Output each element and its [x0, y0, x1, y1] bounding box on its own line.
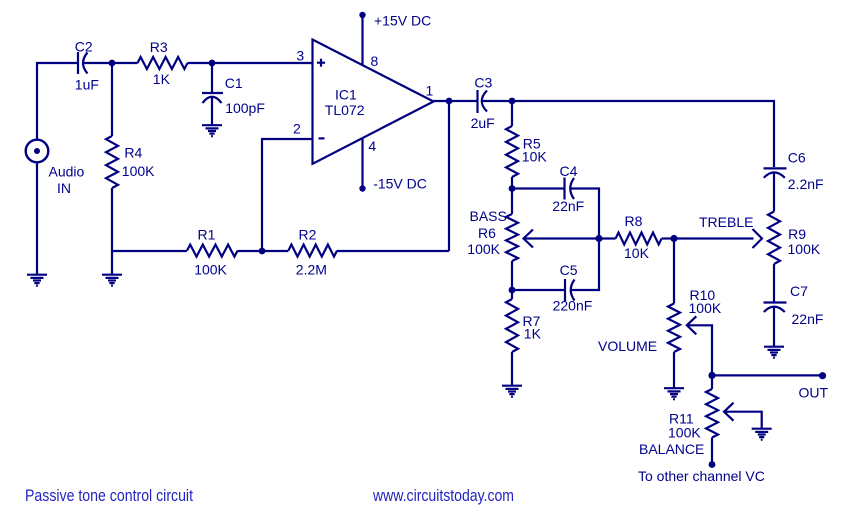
svg-text:1K: 1K: [153, 71, 171, 87]
label Audio IN: [49, 164, 85, 196]
svg-text:-15V DC: -15V DC: [373, 175, 427, 191]
pin 8 wire: [361, 15, 363, 65]
node junction R6/R7/C5: [509, 287, 516, 294]
ground C1: [202, 125, 222, 136]
wire input top: [37, 63, 78, 140]
op-amp IC1 TL072: [313, 40, 434, 164]
wire input to ground: [36, 162, 38, 275]
label R11 100K: [668, 410, 701, 440]
label C3 2uF: [471, 75, 495, 131]
label C6 2.2nF: [788, 149, 824, 192]
resistor R7: [506, 290, 518, 386]
svg-text:TREBLE: TREBLE: [699, 214, 753, 230]
pin 2 label: [293, 120, 301, 136]
svg-text:IN: IN: [57, 180, 71, 196]
label R1 100K: [194, 226, 227, 277]
svg-text:8: 8: [371, 53, 379, 69]
label C1 100pF: [225, 75, 265, 116]
label R2 2.2M: [296, 226, 327, 277]
svg-text:4: 4: [368, 138, 376, 154]
wire R1 to R2: [238, 250, 289, 252]
wiper R10 arrow: [687, 316, 712, 375]
svg-text:10K: 10K: [624, 245, 650, 261]
plus sign pin3: [317, 59, 325, 67]
label R8 10K: [624, 213, 650, 261]
node output junction: [446, 98, 453, 105]
wire to OUT: [712, 374, 823, 376]
resistor R1: [187, 245, 238, 257]
potentiometer R9 TREBLE: [768, 212, 780, 303]
svg-text:100K: 100K: [689, 300, 722, 316]
svg-text:OUT: OUT: [799, 385, 829, 401]
svg-text:TL072: TL072: [325, 102, 365, 118]
wire R6 node to C5: [512, 289, 565, 291]
wire C4 to bus: [570, 189, 599, 239]
svg-text:100K: 100K: [788, 241, 821, 257]
label C7 22nF: [790, 283, 823, 327]
label IC1 TL072: [325, 86, 365, 118]
capacitor C5: [565, 279, 575, 301]
node junction C3/R5: [509, 98, 516, 105]
wiper R11 arrow: [724, 403, 762, 429]
svg-text:R9: R9: [788, 226, 806, 242]
-15V supply dot: [359, 185, 365, 191]
wire ground to R1: [112, 250, 187, 252]
resistor R3: [138, 57, 188, 69]
svg-text:www.circuitstoday.com: www.circuitstoday.com: [372, 486, 514, 505]
svg-text:IC1: IC1: [335, 86, 357, 102]
resistor R8: [599, 233, 674, 245]
label To other channel VC: [638, 468, 765, 484]
pin 4 wire: [361, 138, 363, 189]
svg-text:C2: C2: [75, 38, 93, 54]
ground R10: [664, 388, 684, 399]
label R4 100K: [122, 145, 155, 179]
node junction wiper/R8/C4/C5: [595, 235, 602, 242]
node junction C2/R3/R4: [109, 60, 116, 67]
node junction R3/C1: [209, 60, 216, 67]
wire R5 node to C4: [512, 187, 565, 189]
resistor R2: [288, 245, 337, 257]
svg-text:C4: C4: [560, 163, 578, 179]
node junction R1/R2/pin2: [259, 248, 266, 255]
ground input: [27, 275, 47, 286]
+15V supply dot: [359, 12, 365, 18]
label C2 1uF: [75, 38, 99, 92]
label BALANCE: [639, 441, 704, 457]
node junction R5/R6/C4: [509, 185, 516, 192]
svg-text:1: 1: [426, 82, 434, 98]
svg-text:C3: C3: [474, 75, 492, 91]
wire R2 to output: [337, 250, 449, 252]
label R5 10K: [522, 136, 548, 165]
capacitor C2: [78, 52, 88, 74]
potentiometer R6 BASS: [506, 189, 518, 291]
svg-text:Audio: Audio: [49, 164, 85, 180]
wire C2 to R3: [84, 62, 138, 64]
pin 8 label: [371, 53, 379, 69]
wire R3 to pin3: [188, 62, 313, 64]
svg-text:100K: 100K: [194, 261, 227, 277]
svg-text:2.2M: 2.2M: [296, 261, 327, 277]
svg-text:100pF: 100pF: [225, 100, 265, 116]
label VOLUME: [598, 338, 657, 354]
caption www.circuitstoday.com: [372, 486, 514, 505]
svg-text:100K: 100K: [122, 163, 155, 179]
svg-text:BASS: BASS: [470, 208, 507, 224]
label C4 22nF: [552, 163, 584, 214]
svg-text:100K: 100K: [668, 424, 701, 440]
svg-text:1K: 1K: [524, 325, 542, 341]
svg-text:R4: R4: [124, 145, 142, 161]
svg-text:2: 2: [293, 120, 301, 136]
svg-text:C5: C5: [560, 262, 578, 278]
node junction R8/R10/treble wiper: [670, 235, 677, 242]
capacitor C4: [565, 178, 575, 200]
svg-text:R2: R2: [299, 226, 317, 242]
svg-text:+15V DC: +15V DC: [374, 13, 431, 29]
wire pin2 feedback: [262, 139, 313, 251]
potentiometer R11 BALANCE: [706, 375, 718, 464]
pin 3 label: [296, 47, 304, 63]
audio input connector J1: [26, 140, 49, 163]
capacitor C3: [478, 90, 488, 113]
resistor R5: [506, 101, 518, 189]
label BASS R6 100K: [467, 208, 507, 257]
svg-text:220nF: 220nF: [553, 297, 593, 313]
wire C3 to treble corner: [483, 101, 774, 167]
svg-text:100K: 100K: [467, 241, 500, 257]
svg-text:22nF: 22nF: [552, 198, 584, 214]
label +15V DC: [374, 13, 431, 29]
label C5 220nF: [553, 262, 593, 313]
pin 1 label: [426, 82, 434, 98]
wire R8 node down to R10: [673, 239, 675, 304]
label -15V DC: [373, 175, 427, 191]
svg-text:2uF: 2uF: [471, 115, 495, 131]
ground R7: [502, 386, 522, 397]
svg-text:C6: C6: [788, 149, 806, 165]
caption Passive tone control circuit: [25, 486, 193, 505]
wire output pin1: [434, 100, 478, 102]
ground R11 wiper: [752, 429, 772, 440]
wire output down to R2: [448, 101, 450, 251]
svg-text:2.2nF: 2.2nF: [788, 176, 824, 192]
ground C7: [764, 347, 784, 358]
OUT terminal dot: [819, 372, 826, 379]
svg-text:3: 3: [296, 47, 304, 63]
capacitor C6: [764, 168, 787, 211]
label R10 100K: [689, 287, 722, 316]
capacitor C1: [202, 63, 223, 125]
label R7 1K: [523, 313, 542, 342]
wiper R9 arrow TREBLE: [674, 229, 762, 248]
svg-text:BALANCE: BALANCE: [639, 441, 704, 457]
label R3 1K: [150, 39, 171, 87]
svg-text:R1: R1: [198, 226, 216, 242]
wire C5 to bus: [571, 239, 600, 291]
svg-text:R3: R3: [150, 39, 168, 55]
balance terminal dot: [709, 461, 716, 468]
wiper R6 arrow: [524, 230, 600, 248]
svg-text:R8: R8: [625, 213, 643, 229]
svg-text:C7: C7: [790, 283, 808, 299]
node junction R10 wiper/R11/OUT: [708, 372, 715, 379]
label TREBLE: [699, 214, 753, 230]
svg-text:Passive tone control circuit: Passive tone control circuit: [25, 486, 193, 505]
capacitor C7: [764, 303, 787, 348]
resistor R4: [106, 63, 118, 275]
svg-text:1uF: 1uF: [75, 76, 99, 92]
svg-text:C1: C1: [225, 75, 243, 91]
ground R4: [102, 275, 122, 286]
svg-text:VOLUME: VOLUME: [598, 338, 657, 354]
label OUT: [799, 385, 829, 401]
minus sign pin2: [319, 137, 325, 139]
potentiometer R10 VOLUME: [668, 304, 680, 389]
pin 4 label: [368, 138, 376, 154]
svg-text:10K: 10K: [522, 149, 548, 165]
svg-text:22nF: 22nF: [792, 311, 824, 327]
svg-text:R6: R6: [478, 225, 496, 241]
label R9 100K: [788, 226, 821, 257]
svg-text:To other channel VC: To other channel VC: [638, 468, 765, 484]
